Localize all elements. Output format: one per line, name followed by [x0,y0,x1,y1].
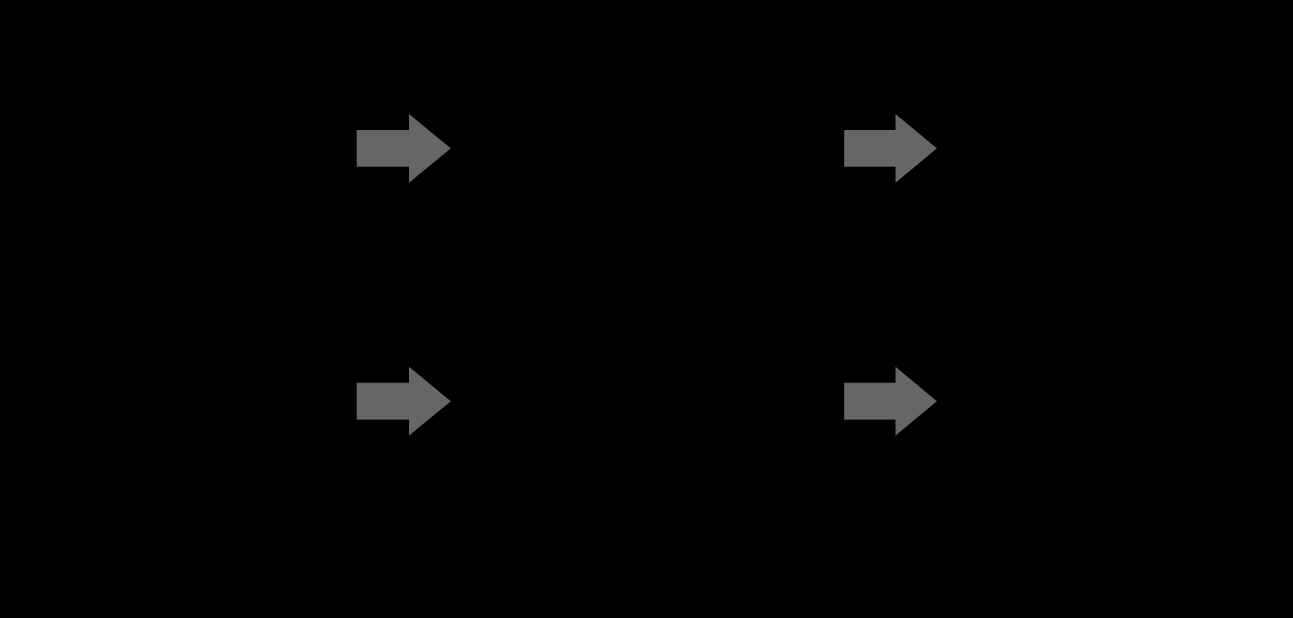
flow arrow A1 (top-left, pointing right) [357,114,451,183]
flow arrow A3 (bottom-left, pointing right) [357,367,451,436]
flow arrow A2 (top-right, pointing right) [844,114,937,183]
flow arrow A4 (bottom-right, pointing right) [844,367,937,436]
